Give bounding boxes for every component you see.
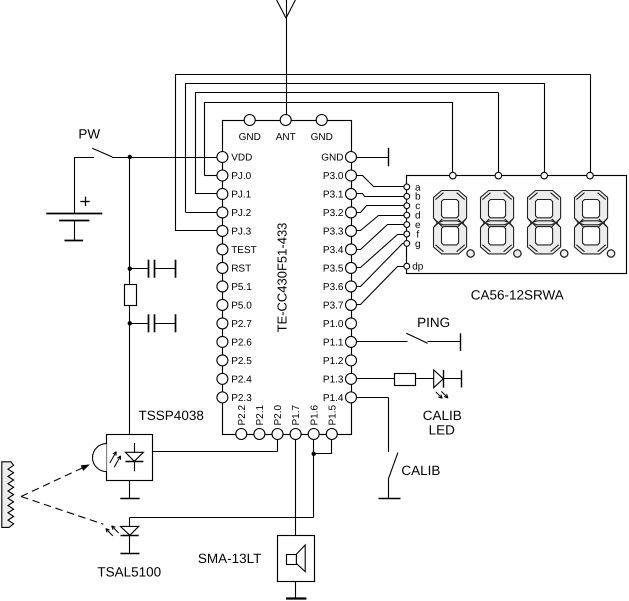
svg-text:RST: RST — [231, 264, 251, 275]
svg-text:PJ.1: PJ.1 — [231, 190, 251, 201]
svg-text:P2.2: P2.2 — [237, 404, 248, 425]
svg-text:P1.6: P1.6 — [309, 404, 320, 425]
svg-text:TE-CC430F51-433: TE-CC430F51-433 — [275, 223, 290, 333]
svg-text:P1.7: P1.7 — [291, 404, 302, 425]
svg-text:P1.2: P1.2 — [323, 356, 344, 367]
svg-text:TSSP4038: TSSP4038 — [139, 408, 204, 423]
svg-text:VDD: VDD — [231, 153, 252, 164]
svg-text:P1.5: P1.5 — [327, 404, 338, 425]
svg-text:P2.4: P2.4 — [231, 374, 252, 385]
svg-text:P3.6: P3.6 — [323, 282, 344, 293]
svg-text:g: g — [415, 239, 421, 250]
svg-text:P5.1: P5.1 — [231, 282, 252, 293]
svg-text:P3.0: P3.0 — [323, 171, 344, 182]
svg-text:P2.1: P2.1 — [255, 404, 266, 425]
svg-text:P1.4: P1.4 — [323, 393, 344, 404]
svg-text:P2.5: P2.5 — [231, 356, 252, 367]
svg-text:P2.3: P2.3 — [231, 393, 252, 404]
svg-text:PING: PING — [417, 315, 450, 330]
svg-text:P3.4: P3.4 — [323, 245, 344, 256]
svg-text:P1.0: P1.0 — [323, 319, 344, 330]
svg-text:TSAL5100: TSAL5100 — [97, 564, 161, 579]
svg-text:P3.3: P3.3 — [323, 227, 344, 238]
svg-text:P3.7: P3.7 — [323, 301, 344, 312]
svg-text:P2.6: P2.6 — [231, 338, 252, 349]
svg-text:P3.1: P3.1 — [323, 190, 344, 201]
svg-text:PJ.3: PJ.3 — [231, 227, 251, 238]
svg-text:CA56-12SRWA: CA56-12SRWA — [471, 287, 564, 302]
svg-text:GND: GND — [239, 132, 261, 143]
svg-text:ANT: ANT — [276, 132, 296, 143]
svg-text:P1.1: P1.1 — [323, 338, 344, 349]
svg-text:P2.7: P2.7 — [231, 319, 252, 330]
svg-text:PJ.2: PJ.2 — [231, 208, 251, 219]
svg-text:P5.0: P5.0 — [231, 301, 252, 312]
svg-text:LED: LED — [429, 422, 456, 437]
svg-text:CALIB: CALIB — [423, 408, 462, 423]
svg-text:P1.3: P1.3 — [323, 374, 344, 385]
svg-text:GND: GND — [311, 132, 333, 143]
svg-text:SMA-13LT: SMA-13LT — [198, 551, 262, 566]
svg-text:TEST: TEST — [231, 245, 257, 256]
svg-text:P3.5: P3.5 — [323, 264, 344, 275]
svg-text:CALIB: CALIB — [401, 463, 440, 478]
svg-text:PW: PW — [78, 126, 100, 141]
svg-text:P2.0: P2.0 — [273, 404, 284, 425]
svg-text:P3.2: P3.2 — [323, 208, 344, 219]
svg-text:PJ.0: PJ.0 — [231, 171, 251, 182]
svg-text:GND: GND — [321, 153, 343, 164]
svg-text:dp: dp — [412, 262, 424, 273]
